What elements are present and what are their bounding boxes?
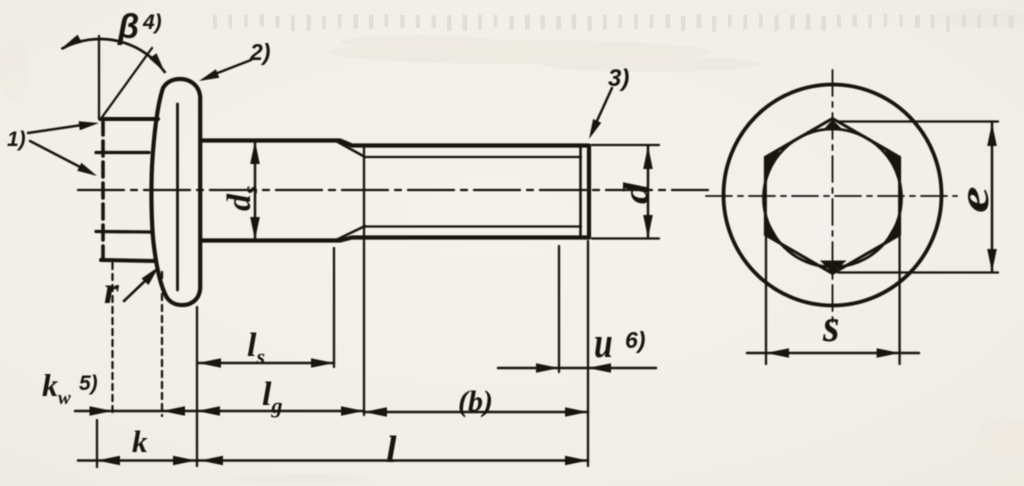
hex head bottom edge (101, 260, 155, 261)
ext line k left (96, 420, 98, 467)
dim line lg (197, 410, 364, 413)
ext line kw right dashed (161, 272, 163, 416)
arrow 1) lower (77, 163, 97, 176)
ext line d top (592, 144, 659, 146)
ext line flange face (196, 307, 198, 466)
hex head upper face line (96, 151, 149, 154)
arrow l right (565, 456, 588, 466)
hexagon corner chamfer top (825, 120, 842, 129)
thread root bottom (364, 225, 581, 227)
hex head top edge (102, 117, 158, 121)
flange outline (151, 79, 200, 305)
thread runout top (336, 141, 365, 157)
svg-text:(b): (b) (458, 385, 493, 418)
svg-text:r: r (104, 270, 120, 312)
svg-text:l: l (386, 429, 397, 471)
arrow ds down (250, 217, 260, 240)
arrow k right (173, 456, 196, 466)
thread root top (364, 156, 581, 158)
arrow 1) upper (79, 121, 99, 130)
ext line s right (898, 237, 900, 364)
arrow s left (766, 348, 789, 358)
leader 1) lower (30, 141, 82, 168)
svg-text:1): 1) (7, 128, 26, 151)
shank top edge (201, 141, 588, 146)
hexagon corner chamfer upper-left (765, 148, 781, 176)
svg-text:5): 5) (79, 372, 98, 395)
arrow 3) (589, 119, 601, 139)
svg-text:4): 4) (142, 11, 162, 34)
hexagon (765, 119, 899, 274)
arrow lg right (341, 406, 364, 416)
arrow ds up (250, 141, 260, 164)
hex head lower face line (96, 230, 151, 234)
shank bottom edge (201, 238, 588, 241)
hex head left face (dashed) (101, 120, 105, 259)
flange inner edge line (176, 104, 179, 290)
svg-text:u: u (594, 320, 613, 367)
angle arc (62, 39, 164, 72)
thread end chamfer (579, 148, 582, 235)
ext line u left (558, 246, 560, 372)
dim line k and l (78, 459, 588, 462)
ext line d bottom (592, 237, 659, 239)
svg-text:6): 6) (625, 327, 645, 353)
arrow k left (97, 456, 120, 466)
thread runout bottom (336, 226, 365, 240)
hexagon corner chamfer upper-right (884, 148, 900, 176)
angle slanted line (100, 48, 152, 120)
arrow kw right (162, 406, 185, 416)
hexagon corner chamfer bottom (820, 261, 847, 274)
svg-text:2): 2) (249, 39, 270, 65)
arrow ls left (198, 358, 221, 368)
ext line ls right (333, 248, 335, 367)
ext line s left (765, 237, 767, 364)
axis centerline of bolt (78, 189, 708, 191)
svg-text:s: s (822, 299, 839, 351)
hexagon corner chamfer lower-right (884, 217, 900, 245)
arrow kw left (90, 406, 113, 416)
leader 2) (215, 60, 251, 74)
arrow d down (643, 215, 653, 238)
arrow r (142, 267, 160, 286)
svg-text:d: d (617, 181, 656, 204)
arrowheads (62, 35, 653, 466)
flange circle (724, 85, 942, 306)
arrow b left (364, 407, 387, 417)
arrow b right (565, 407, 588, 417)
ext line thread end long (587, 241, 589, 466)
dim line ds (254, 141, 257, 240)
dim line ls (198, 362, 334, 365)
arrow d up (643, 146, 653, 169)
arrow ls right (311, 358, 334, 368)
arrow lg left (197, 406, 220, 416)
arrow u right (588, 363, 611, 373)
ext line e bottom (838, 271, 998, 273)
leader 1) upper (28, 125, 82, 133)
arrow e up (987, 123, 997, 146)
dim line d (647, 146, 650, 238)
centerline vertical (832, 70, 834, 322)
dim line s (747, 352, 919, 355)
svg-text:k: k (132, 424, 148, 459)
arrow arc right (149, 53, 164, 72)
full thread boundary line (363, 147, 365, 415)
centerline horizontal (706, 195, 957, 197)
arrow s right (877, 348, 900, 358)
chamfer circle (764, 129, 902, 267)
hexagon corner chamfer lower-left (765, 217, 781, 245)
svg-text:3): 3) (608, 65, 629, 92)
thread end face (587, 146, 591, 238)
leader r (124, 280, 146, 301)
dim line kw (75, 410, 196, 413)
angle ref vertical line (98, 36, 100, 119)
ext line kw left dashed (111, 263, 113, 416)
arrow 2) (199, 69, 219, 81)
leader 3) (596, 88, 612, 123)
dim line u (498, 367, 656, 370)
ext line e top (838, 120, 998, 122)
svg-text:β: β (117, 8, 139, 46)
dim line b (364, 411, 588, 414)
dim line e (991, 123, 994, 272)
svg-text:e: e (952, 186, 998, 213)
arrow u left (536, 363, 559, 373)
arrow e down (987, 249, 997, 272)
arrow l left (200, 456, 223, 466)
arrow arc left (62, 35, 82, 48)
